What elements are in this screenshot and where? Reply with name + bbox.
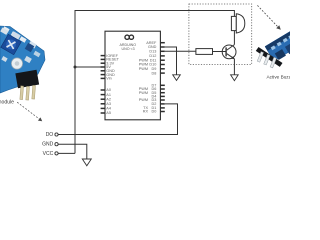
pin D8: [152, 71, 165, 75]
pin D5: [139, 91, 165, 95]
active buzzer module photo: [256, 32, 299, 68]
wire D13 to resistor: [165, 50, 196, 52]
pin A5: [101, 111, 111, 115]
svg-text:Vin: Vin: [106, 77, 111, 81]
pin D4: [152, 95, 165, 99]
pin IOREF left: [101, 54, 119, 58]
wire Arduino GND to ground: [165, 47, 177, 75]
wire resistor to base: [213, 51, 227, 53]
wire DO to D2: [58, 104, 178, 135]
svg-text:PWM: PWM: [139, 91, 148, 95]
ground (Arduino GND): [173, 75, 181, 81]
terminal GND: [55, 143, 58, 146]
svg-text:PWM: PWM: [139, 98, 148, 102]
pin Vin left: [101, 77, 112, 81]
pin A1: [101, 93, 111, 97]
pin D0: [143, 110, 165, 114]
terminal VCC: [55, 152, 58, 155]
dashed arrow to module pins: [17, 102, 39, 119]
pin D2: [152, 102, 165, 106]
svg-text:DO: DO: [46, 132, 54, 138]
ground (sensor): [82, 159, 91, 166]
pin D6: [139, 87, 165, 91]
svg-text:UNO <3: UNO <3: [122, 47, 135, 51]
junction 5V: [74, 66, 77, 69]
pin RESET left: [101, 58, 120, 62]
pin D7: [152, 83, 165, 87]
svg-text:A1: A1: [106, 93, 111, 97]
ground (emitter): [231, 75, 239, 81]
pin A4: [101, 107, 111, 111]
pin D1: [143, 106, 165, 110]
svg-text:GND: GND: [42, 142, 54, 148]
svg-text:A5: A5: [106, 111, 111, 115]
svg-text:A2: A2: [106, 97, 111, 101]
pin A2: [101, 97, 111, 101]
svg-text:A4: A4: [106, 107, 111, 111]
Arduino logo: [125, 35, 129, 39]
resistor: [196, 49, 213, 55]
wire collector to speaker: [233, 31, 235, 45]
pin AREF: [146, 41, 165, 45]
dashed box (buzzer driver circuit): [189, 4, 252, 64]
svg-text:PWM: PWM: [139, 67, 148, 71]
svg-text:Active Buzzer: Active Buzzer: [267, 74, 291, 79]
pin 3.3V left: [101, 61, 115, 65]
pin GND left: [101, 69, 115, 73]
wire 5V net (top rail and vertical): [75, 11, 234, 154]
wire GND to ground: [58, 144, 87, 159]
pin GND: [148, 45, 165, 49]
wire emitter to ground: [233, 59, 235, 75]
wire 5V pin to rail: [75, 66, 105, 68]
svg-text:D13: D13: [149, 49, 156, 53]
sound sensor module photo: [0, 26, 45, 100]
wire VCC to 5V rail: [58, 152, 75, 154]
speaker (buzzer): [231, 14, 244, 33]
svg-text:A3: A3: [106, 102, 111, 106]
svg-text:RX: RX: [143, 110, 149, 114]
pin GND left: [101, 73, 115, 77]
pin D9: [139, 67, 165, 71]
svg-text:A0: A0: [106, 88, 111, 92]
Arduino UNO U1 body: [105, 31, 160, 120]
pin D10: [139, 63, 165, 67]
pin 5V left: [101, 65, 112, 69]
pin A3: [101, 102, 111, 106]
pin D11: [139, 58, 165, 62]
dashed arrow to buzzer module: [257, 5, 278, 27]
terminal DO: [55, 133, 58, 136]
pin A0: [101, 88, 111, 92]
svg-text:Sound sensor module: Sound sensor module: [0, 100, 14, 106]
pin D3: [139, 98, 165, 102]
svg-text:VCC: VCC: [43, 151, 54, 157]
svg-text:D8: D8: [152, 71, 157, 75]
transistor Q1 (NPN): [222, 45, 236, 60]
pin D13: [149, 49, 164, 53]
pin D12: [149, 54, 164, 58]
svg-text:D0: D0: [152, 110, 157, 114]
